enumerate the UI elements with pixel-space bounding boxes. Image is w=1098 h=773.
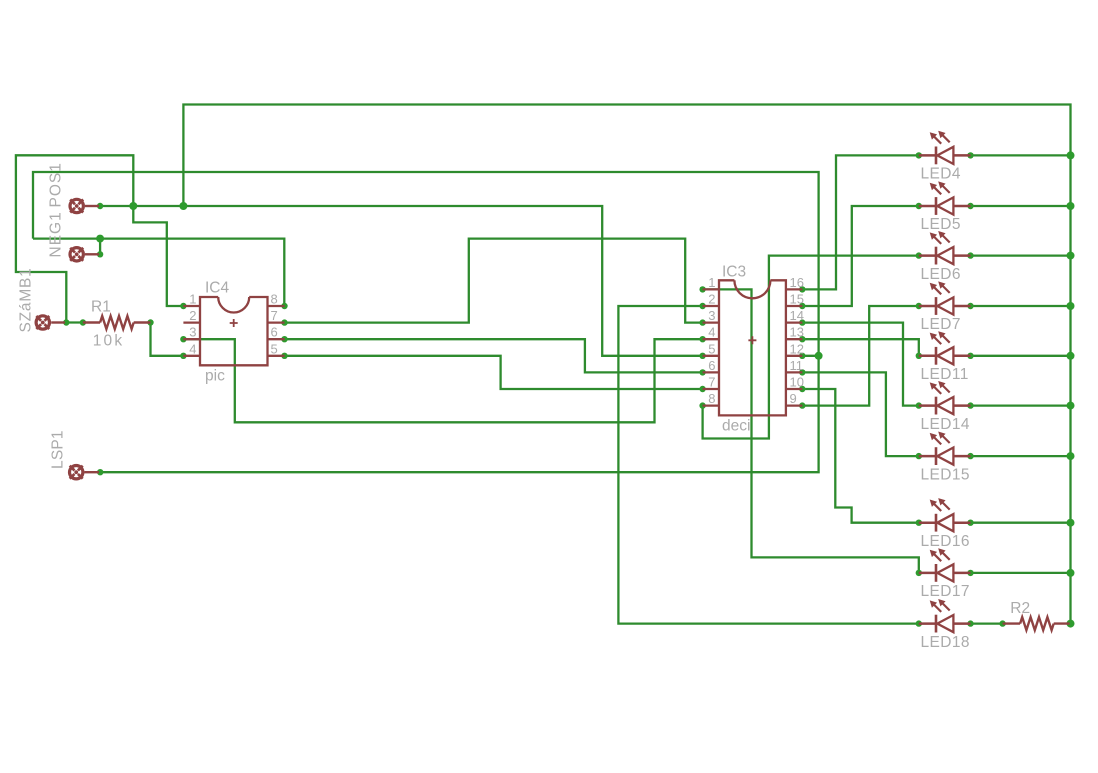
svg-text:IC3: IC3 <box>722 264 746 281</box>
connector POS1 (pad symbol) <box>70 199 99 212</box>
svg-text:pic: pic <box>205 368 225 385</box>
svg-text:3: 3 <box>708 308 715 323</box>
wire net POS1 branch through SZáMB1 pad and R1 left <box>16 155 133 322</box>
IC4 notch <box>218 297 249 312</box>
svg-text:2: 2 <box>708 292 715 307</box>
junction NEG1 junction at IC3 pin 12 <box>815 352 823 360</box>
svg-text:R2: R2 <box>1010 600 1030 617</box>
IC4 plus mark <box>230 319 238 327</box>
svg-text:POS1: POS1 <box>48 162 65 207</box>
svg-text:7: 7 <box>271 308 278 323</box>
IC3 notch <box>734 280 770 298</box>
svg-text:LED11: LED11 <box>921 366 969 383</box>
junction NEG1 junction at pad riser <box>96 235 104 243</box>
svg-text:1: 1 <box>708 275 715 290</box>
svg-text:5: 5 <box>708 341 715 356</box>
LED LED7 <box>919 281 971 315</box>
wire net IC3 pin 13 to LED11 anode <box>802 339 919 356</box>
svg-text:6: 6 <box>271 325 278 340</box>
wire net IC4 pin 3 to IC3 pin 4 <box>183 339 702 422</box>
wire net IC3 pin 10 to LED16 anode <box>802 389 919 523</box>
svg-text:SZáMB1: SZáMB1 <box>18 267 35 332</box>
IC4 pin numbers <box>189 292 277 357</box>
LED LED18 <box>919 599 971 633</box>
wire net IC3 pin 15 to LED5 anode <box>802 206 919 306</box>
wire net POS1 branch to IC4 pin 1 <box>133 206 183 306</box>
svg-text:10k: 10k <box>93 333 125 350</box>
svg-text:13: 13 <box>790 325 804 340</box>
wire net POS1 top rail to LED anode rail <box>183 105 1070 624</box>
LED LED4 <box>919 131 971 165</box>
wire net IC3 pin 8 to LED6 anode <box>703 256 919 439</box>
svg-text:LED6: LED6 <box>921 266 961 283</box>
LED LED5 <box>919 181 971 215</box>
svg-text:4: 4 <box>708 325 715 340</box>
svg-text:LED5: LED5 <box>921 216 961 233</box>
resistor R2 pin leads <box>1003 622 1070 624</box>
svg-text:R1: R1 <box>91 299 111 316</box>
svg-text:LED14: LED14 <box>921 416 970 433</box>
counter IC3 body <box>719 280 786 415</box>
wire net R1 right to IC4 pin 4 <box>151 323 184 356</box>
svg-text:15: 15 <box>790 292 804 307</box>
svg-text:12: 12 <box>790 341 804 356</box>
wire net IC4 pin 6 to IC3 pin 6 <box>285 339 703 372</box>
junction V+ rail junctions at LED rows <box>1067 151 1075 627</box>
svg-text:NEG1: NEG1 <box>48 211 65 257</box>
svg-text:16: 16 <box>790 275 804 290</box>
svg-text:LED4: LED4 <box>921 166 961 183</box>
wire net IC3 pin 9 to LED7 anode <box>802 306 919 406</box>
wire net IC3 pin 11 to LED15 anode <box>802 372 919 456</box>
resistor R2 <box>1020 617 1054 630</box>
svg-text:1: 1 <box>189 292 196 307</box>
svg-text:11: 11 <box>790 358 804 373</box>
svg-text:LED7: LED7 <box>921 316 961 333</box>
svg-text:10: 10 <box>790 375 804 390</box>
IC4 pin stubs <box>183 306 284 356</box>
junction IC3 right pin connections <box>799 286 805 409</box>
connector LSP1 (pad symbol) <box>70 466 100 479</box>
svg-text:LED17: LED17 <box>921 583 970 600</box>
svg-text:IC4: IC4 <box>205 280 230 297</box>
IC3 pin stubs <box>703 289 803 405</box>
wire net POS1: pad POS1 to IC3 pin 5 <box>100 206 703 356</box>
LED LED16 <box>919 498 971 531</box>
wire net IC3 pin 2 to LED18 anode <box>618 306 918 624</box>
svg-text:LED15: LED15 <box>921 466 970 483</box>
svg-text:LED16: LED16 <box>921 533 970 550</box>
svg-text:LSP1: LSP1 <box>50 430 67 469</box>
wire LED cathode wires to V+ rail and R2 <box>971 155 1071 623</box>
svg-text:8: 8 <box>271 292 278 307</box>
junction pad pin connections <box>63 203 103 476</box>
wire net IC3 pin 16 to LED4 anode <box>802 155 919 289</box>
svg-text:8: 8 <box>708 391 715 406</box>
connector NEG1 (pad symbol) <box>70 248 99 261</box>
junction R2 pin connections <box>999 620 1005 626</box>
wire net NEG1: pad riser, to IC4 pin 8, to IC3 pin 12 and LSP1 <box>33 172 819 472</box>
LED LED6 <box>919 231 971 265</box>
LED LED17 <box>919 548 971 582</box>
LED LED14 <box>919 381 971 415</box>
LED LED15 <box>919 432 971 466</box>
junction R1 pin connections <box>80 319 154 325</box>
junction POS1 line junctions <box>129 202 187 210</box>
LED LED11 <box>919 331 971 365</box>
svg-text:14: 14 <box>790 308 804 323</box>
resistor R1 pin leads <box>83 321 151 323</box>
svg-text:4: 4 <box>189 341 196 356</box>
svg-text:7: 7 <box>708 375 715 390</box>
svg-text:2: 2 <box>189 308 196 323</box>
svg-text:5: 5 <box>271 341 278 356</box>
wire net IC4 pin 5 to IC3 pin 7 <box>285 356 703 389</box>
svg-text:deci: deci <box>722 418 750 435</box>
IC3 pin numbers <box>708 275 804 406</box>
junction IC4 pin connections <box>180 303 287 359</box>
connector SZáMB1 (pad symbol) <box>36 316 65 329</box>
svg-text:LED18: LED18 <box>921 634 970 651</box>
wire net IC4 pin 7 to IC3 pin 3 <box>285 239 703 323</box>
IC3 plus mark <box>748 336 756 344</box>
junction LED pin connections <box>916 152 974 627</box>
junction IC3 left pin connections <box>699 286 705 409</box>
svg-text:9: 9 <box>790 391 797 406</box>
wire net IC3 pin 14 to LED14 anode <box>802 323 919 406</box>
wire net IC3 pin 1 to LED17 anode <box>703 289 919 573</box>
op-amp/micro IC4 body <box>200 297 268 365</box>
svg-text:6: 6 <box>708 358 715 373</box>
svg-text:3: 3 <box>189 325 196 340</box>
resistor R1 <box>100 316 134 329</box>
